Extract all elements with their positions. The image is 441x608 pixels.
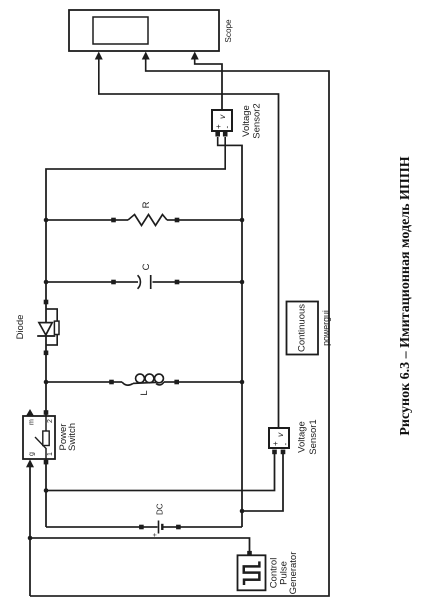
svg-text:m: m xyxy=(29,419,36,425)
svg-text:Scope: Scope xyxy=(224,19,233,43)
svg-text:g: g xyxy=(29,452,36,456)
svg-text:v: v xyxy=(275,432,285,437)
svg-text:C: C xyxy=(141,263,152,270)
svg-text:v: v xyxy=(217,114,227,119)
svg-text:Continuous: Continuous xyxy=(297,304,308,352)
svg-text:Sensor2: Sensor2 xyxy=(252,103,263,138)
svg-text:1: 1 xyxy=(47,452,54,456)
svg-text:+: + xyxy=(152,533,159,537)
svg-text:Voltage: Voltage xyxy=(297,421,308,453)
svg-text:Switch: Switch xyxy=(67,423,78,451)
svg-text:Voltage: Voltage xyxy=(241,105,252,137)
svg-text:powergui: powergui xyxy=(321,310,331,346)
svg-text:DC: DC xyxy=(156,503,165,515)
svg-text:L: L xyxy=(139,390,150,395)
svg-text:+: + xyxy=(271,441,280,446)
svg-text:Sensor1: Sensor1 xyxy=(308,419,319,454)
svg-text:-: - xyxy=(223,126,232,129)
svg-text:-: - xyxy=(281,443,290,446)
svg-text:Diode: Diode xyxy=(15,315,26,340)
svg-text:2: 2 xyxy=(47,419,54,423)
svg-text:Рисунок 6.3 – Имитационная мод: Рисунок 6.3 – Имитационная модель ИППН xyxy=(398,156,413,435)
svg-text:R: R xyxy=(141,201,152,208)
svg-text:Generator: Generator xyxy=(288,552,299,595)
